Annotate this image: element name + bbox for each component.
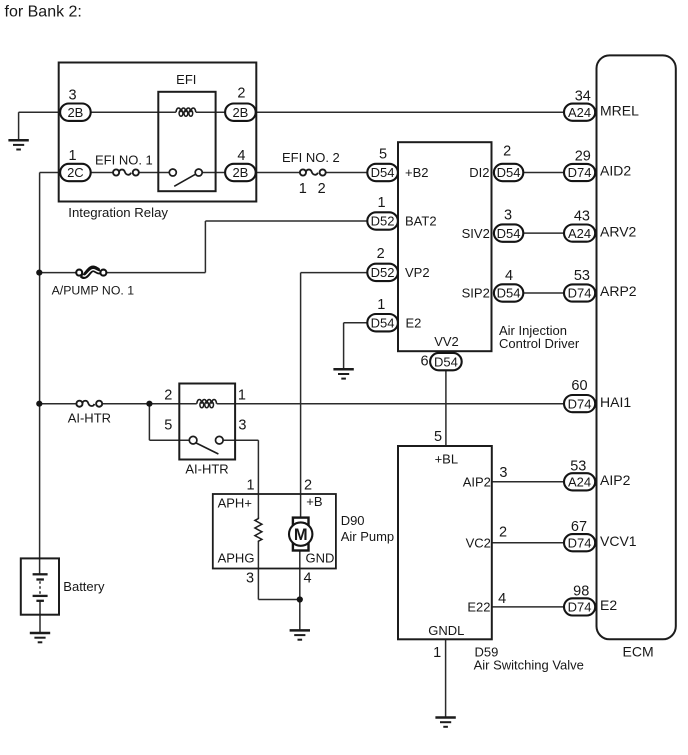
svg-text:2: 2 xyxy=(503,143,511,159)
svg-text:3: 3 xyxy=(504,208,512,224)
svg-text:3: 3 xyxy=(238,417,246,433)
svg-text:D74: D74 xyxy=(568,165,592,180)
svg-text:VCV1: VCV1 xyxy=(600,533,637,549)
svg-text:+B2: +B2 xyxy=(405,165,429,180)
svg-text:60: 60 xyxy=(571,378,587,394)
svg-text:APHG: APHG xyxy=(218,551,255,566)
svg-text:D54: D54 xyxy=(371,165,395,180)
svg-text:67: 67 xyxy=(571,519,587,535)
svg-text:E2: E2 xyxy=(406,315,422,330)
svg-text:53: 53 xyxy=(570,458,586,474)
svg-text:D54: D54 xyxy=(371,315,395,330)
svg-text:ECM: ECM xyxy=(623,643,654,659)
svg-text:for Bank 2:: for Bank 2: xyxy=(5,4,82,21)
svg-text:Battery: Battery xyxy=(63,579,105,594)
svg-text:53: 53 xyxy=(574,268,590,284)
svg-text:2: 2 xyxy=(499,525,507,541)
svg-text:D52: D52 xyxy=(371,265,395,280)
svg-text:2B: 2B xyxy=(232,165,248,180)
svg-text:D74: D74 xyxy=(568,535,592,550)
svg-text:1: 1 xyxy=(238,388,246,404)
svg-text:4: 4 xyxy=(237,148,245,164)
svg-text:4: 4 xyxy=(505,268,513,284)
svg-text:A24: A24 xyxy=(568,226,591,241)
svg-text:D54: D54 xyxy=(497,226,521,241)
svg-text:1: 1 xyxy=(433,645,441,661)
svg-text:GNDL: GNDL xyxy=(428,623,464,638)
svg-text:SIV2: SIV2 xyxy=(462,226,490,241)
svg-text:E2: E2 xyxy=(600,597,617,613)
svg-text:D90: D90 xyxy=(341,513,365,528)
svg-text:Control Driver: Control Driver xyxy=(499,336,580,351)
svg-text:2: 2 xyxy=(164,388,172,404)
svg-text:AIP2: AIP2 xyxy=(463,474,491,489)
svg-text:Air Pump: Air Pump xyxy=(341,529,394,544)
svg-text:D52: D52 xyxy=(371,214,395,229)
svg-text:A24: A24 xyxy=(568,475,591,490)
svg-text:EFI NO. 2: EFI NO. 2 xyxy=(282,150,340,165)
svg-text:M: M xyxy=(294,526,308,544)
svg-text:+B: +B xyxy=(306,494,322,509)
svg-text:ARP2: ARP2 xyxy=(600,283,637,299)
svg-text:4: 4 xyxy=(304,570,312,586)
svg-text:D74: D74 xyxy=(568,286,592,301)
svg-text:VV2: VV2 xyxy=(434,334,459,349)
svg-text:MREL: MREL xyxy=(600,102,639,118)
svg-text:D74: D74 xyxy=(568,396,592,411)
svg-text:1: 1 xyxy=(377,297,385,313)
svg-text:DI2: DI2 xyxy=(469,165,489,180)
svg-text:D54: D54 xyxy=(497,165,521,180)
svg-text:+BL: +BL xyxy=(435,451,459,466)
svg-text:5: 5 xyxy=(379,147,387,163)
svg-text:SIP2: SIP2 xyxy=(462,286,490,301)
svg-text:VP2: VP2 xyxy=(405,265,430,280)
svg-text:EFI: EFI xyxy=(176,72,196,87)
svg-text:AI-HTR: AI-HTR xyxy=(185,461,228,476)
svg-text:AIP2: AIP2 xyxy=(600,472,631,488)
svg-text:HAI1: HAI1 xyxy=(600,394,631,410)
svg-text:2B: 2B xyxy=(232,105,248,120)
svg-text:GND: GND xyxy=(306,551,335,566)
svg-text:2: 2 xyxy=(377,246,385,262)
svg-text:D54: D54 xyxy=(434,354,458,369)
svg-text:34: 34 xyxy=(575,88,591,104)
svg-text:AID2: AID2 xyxy=(600,163,631,179)
svg-text:APH+: APH+ xyxy=(218,496,252,511)
svg-text:43: 43 xyxy=(574,208,590,224)
svg-text:BAT2: BAT2 xyxy=(405,214,437,229)
svg-text:2C: 2C xyxy=(67,165,84,180)
svg-text:3: 3 xyxy=(69,87,77,103)
svg-text:AI-HTR: AI-HTR xyxy=(68,411,111,426)
svg-text:D54: D54 xyxy=(497,286,521,301)
svg-text:1: 1 xyxy=(246,478,254,494)
svg-text:Integration Relay: Integration Relay xyxy=(68,205,168,220)
svg-text:6: 6 xyxy=(421,354,429,370)
svg-text:E22: E22 xyxy=(467,600,490,615)
svg-text:VC2: VC2 xyxy=(466,535,491,550)
svg-text:EFI NO. 1: EFI NO. 1 xyxy=(95,153,153,168)
svg-text:98: 98 xyxy=(573,584,589,600)
svg-text:2: 2 xyxy=(237,86,245,102)
svg-text:A24: A24 xyxy=(568,105,591,120)
svg-text:1: 1 xyxy=(299,181,307,197)
svg-text:3: 3 xyxy=(499,465,507,481)
svg-text:D74: D74 xyxy=(568,600,592,615)
svg-text:5: 5 xyxy=(434,429,442,445)
svg-text:A/PUMP NO. 1: A/PUMP NO. 1 xyxy=(52,284,135,298)
svg-text:4: 4 xyxy=(498,591,506,607)
svg-text:Air Switching Valve: Air Switching Valve xyxy=(474,658,584,673)
svg-text:1: 1 xyxy=(69,148,77,164)
svg-text:5: 5 xyxy=(164,417,172,433)
svg-text:3: 3 xyxy=(246,570,254,586)
svg-text:29: 29 xyxy=(575,149,591,165)
svg-text:1: 1 xyxy=(377,195,385,211)
svg-text:2: 2 xyxy=(304,478,312,494)
svg-text:2B: 2B xyxy=(67,105,83,120)
svg-text:ARV2: ARV2 xyxy=(600,223,637,239)
svg-text:2: 2 xyxy=(318,181,326,197)
